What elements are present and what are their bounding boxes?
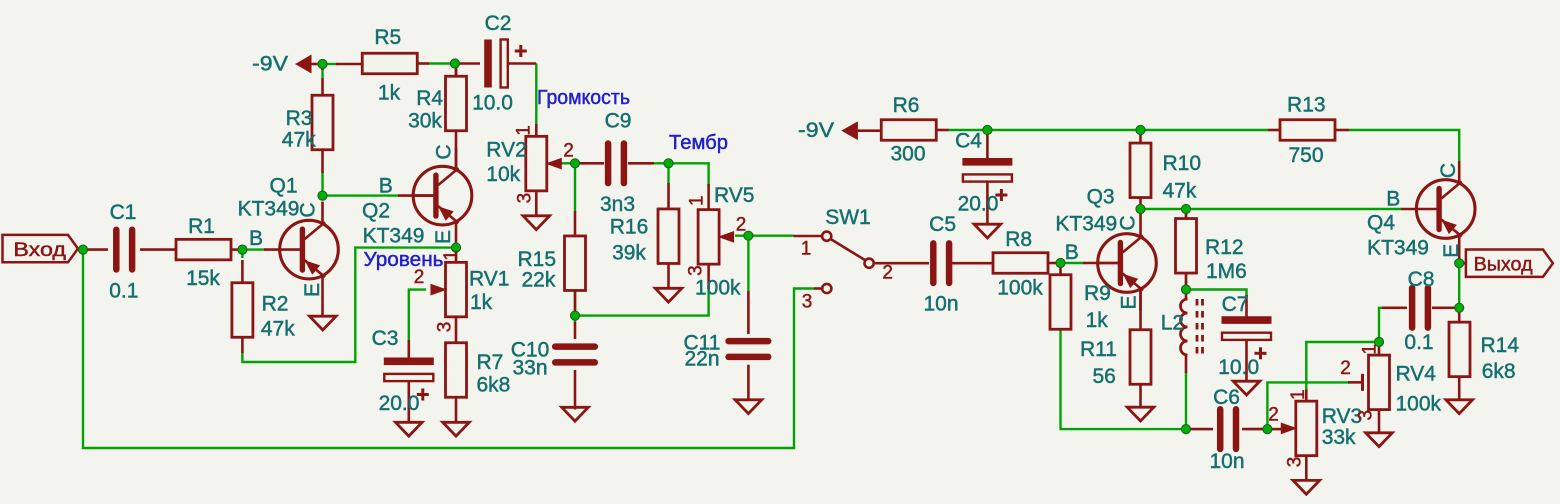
svg-text:2: 2 bbox=[1268, 405, 1279, 426]
svg-text:-9V: -9V bbox=[252, 53, 288, 76]
svg-text:10.0: 10.0 bbox=[472, 92, 513, 115]
svg-text:E: E bbox=[1118, 295, 1141, 309]
svg-text:1: 1 bbox=[1360, 344, 1381, 355]
svg-text:Q1: Q1 bbox=[269, 175, 297, 198]
svg-text:300: 300 bbox=[890, 143, 925, 166]
svg-text:Уровень: Уровень bbox=[364, 249, 444, 271]
svg-text:R13: R13 bbox=[1287, 94, 1326, 117]
svg-text:Q4: Q4 bbox=[1367, 211, 1395, 234]
svg-text:1k: 1k bbox=[378, 82, 401, 105]
svg-text:22k: 22k bbox=[522, 269, 556, 292]
svg-text:0.1: 0.1 bbox=[1404, 331, 1433, 354]
svg-text:1: 1 bbox=[513, 125, 534, 136]
svg-text:10k: 10k bbox=[486, 163, 520, 186]
svg-text:C6: C6 bbox=[1213, 386, 1240, 409]
svg-text:3: 3 bbox=[686, 265, 707, 276]
svg-text:R16: R16 bbox=[610, 216, 649, 239]
svg-text:30k: 30k bbox=[408, 109, 442, 132]
svg-text:R7: R7 bbox=[477, 351, 504, 374]
svg-text:-9V: -9V bbox=[798, 119, 834, 142]
svg-text:C3: C3 bbox=[372, 327, 399, 350]
svg-text:3: 3 bbox=[435, 322, 456, 333]
svg-text:47k: 47k bbox=[1163, 180, 1197, 203]
svg-text:1: 1 bbox=[1288, 389, 1309, 400]
svg-text:1M6: 1M6 bbox=[1206, 260, 1247, 283]
svg-text:C: C bbox=[1437, 163, 1460, 178]
svg-text:20.0: 20.0 bbox=[958, 193, 999, 216]
svg-text:C: C bbox=[1117, 215, 1140, 230]
svg-text:E: E bbox=[432, 230, 455, 244]
svg-text:C1: C1 bbox=[110, 201, 137, 224]
svg-text:750: 750 bbox=[1288, 144, 1323, 167]
svg-text:1: 1 bbox=[801, 238, 812, 259]
svg-text:33n: 33n bbox=[512, 357, 547, 380]
svg-text:B: B bbox=[249, 227, 263, 250]
svg-text:RV2: RV2 bbox=[486, 139, 526, 162]
svg-text:KT349: KT349 bbox=[1367, 236, 1429, 259]
svg-text:15k: 15k bbox=[186, 267, 220, 290]
svg-text:Громкость: Громкость bbox=[537, 87, 630, 109]
svg-text:10n: 10n bbox=[1209, 450, 1244, 473]
svg-text:Вход: Вход bbox=[13, 240, 66, 261]
svg-text:C: C bbox=[297, 202, 320, 217]
svg-text:RV1: RV1 bbox=[469, 268, 509, 291]
svg-text:2: 2 bbox=[736, 214, 747, 235]
svg-text:3n3: 3n3 bbox=[600, 193, 635, 216]
svg-text:6k8: 6k8 bbox=[1482, 360, 1516, 383]
svg-text:SW1: SW1 bbox=[825, 206, 871, 229]
svg-text:R3: R3 bbox=[286, 107, 313, 130]
svg-text:3: 3 bbox=[1285, 457, 1306, 468]
svg-text:RV5: RV5 bbox=[714, 184, 754, 207]
svg-text:100k: 100k bbox=[1396, 393, 1442, 416]
svg-text:22n: 22n bbox=[684, 348, 719, 371]
svg-text:C8: C8 bbox=[1408, 268, 1435, 291]
svg-text:R12: R12 bbox=[1205, 236, 1244, 259]
svg-text:R2: R2 bbox=[262, 293, 289, 316]
svg-text:47k: 47k bbox=[261, 318, 295, 341]
svg-text:20.0: 20.0 bbox=[379, 392, 420, 415]
svg-text:1k: 1k bbox=[470, 291, 493, 314]
svg-text:KT349: KT349 bbox=[363, 225, 425, 248]
svg-text:10.0: 10.0 bbox=[1218, 356, 1259, 379]
svg-text:R10: R10 bbox=[1163, 152, 1202, 175]
svg-text:2: 2 bbox=[1340, 358, 1351, 379]
svg-text:56: 56 bbox=[1093, 365, 1116, 388]
svg-text:C9: C9 bbox=[605, 110, 632, 133]
svg-text:1: 1 bbox=[441, 250, 462, 261]
svg-text:E: E bbox=[301, 283, 324, 297]
svg-text:B: B bbox=[1065, 241, 1079, 264]
svg-text:2: 2 bbox=[882, 262, 893, 283]
svg-text:R11: R11 bbox=[1080, 338, 1117, 361]
svg-text:Тембр: Тембр bbox=[669, 132, 728, 154]
svg-text:E: E bbox=[1440, 244, 1463, 258]
svg-text:C5: C5 bbox=[929, 213, 956, 236]
svg-text:Выход: Выход bbox=[1474, 254, 1533, 275]
svg-text:KT349: KT349 bbox=[238, 198, 300, 221]
svg-text:B: B bbox=[1386, 188, 1400, 211]
svg-text:6k8: 6k8 bbox=[477, 373, 511, 396]
svg-text:C2: C2 bbox=[485, 12, 512, 35]
svg-text:1k: 1k bbox=[1086, 309, 1109, 332]
svg-text:3: 3 bbox=[1355, 410, 1376, 421]
svg-text:L2: L2 bbox=[1161, 312, 1184, 335]
svg-text:KT349: KT349 bbox=[1055, 212, 1117, 235]
svg-text:Q3: Q3 bbox=[1087, 185, 1115, 208]
svg-text:R6: R6 bbox=[893, 94, 920, 117]
svg-text:R5: R5 bbox=[374, 26, 401, 49]
svg-text:R14: R14 bbox=[1481, 334, 1520, 357]
svg-text:1: 1 bbox=[687, 195, 708, 206]
svg-text:R8: R8 bbox=[1005, 228, 1032, 251]
svg-text:B: B bbox=[379, 175, 393, 198]
svg-text:2: 2 bbox=[563, 141, 574, 162]
svg-text:C4: C4 bbox=[955, 130, 982, 153]
svg-text:39k: 39k bbox=[612, 242, 646, 265]
svg-text:Q2: Q2 bbox=[362, 200, 390, 223]
svg-text:C: C bbox=[433, 144, 456, 159]
svg-text:0.1: 0.1 bbox=[109, 279, 138, 302]
svg-text:100k: 100k bbox=[997, 277, 1043, 300]
svg-text:2: 2 bbox=[414, 267, 425, 288]
svg-text:3: 3 bbox=[802, 291, 813, 312]
svg-text:33k: 33k bbox=[1322, 426, 1356, 449]
svg-text:3: 3 bbox=[514, 193, 535, 204]
svg-text:RV4: RV4 bbox=[1396, 363, 1437, 386]
svg-text:C7: C7 bbox=[1222, 293, 1249, 316]
svg-text:R4: R4 bbox=[416, 87, 443, 110]
svg-text:R9: R9 bbox=[1084, 282, 1111, 305]
svg-text:47k: 47k bbox=[282, 128, 316, 151]
svg-text:10n: 10n bbox=[923, 293, 958, 316]
svg-text:100k: 100k bbox=[695, 277, 741, 300]
svg-text:R1: R1 bbox=[188, 215, 215, 238]
